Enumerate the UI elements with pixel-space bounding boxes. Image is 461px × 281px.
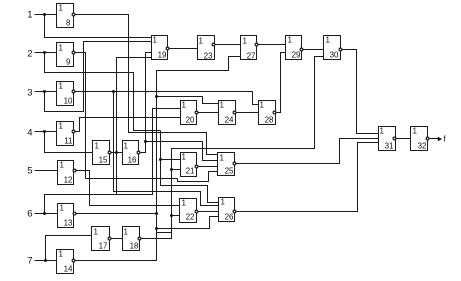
wire: gate 19 output to gate 23 input [169,48,198,50]
svg-text:1: 1 [326,36,331,45]
svg-text:1: 1 [60,204,65,213]
wire: input 1 to gate 8, branch to gate 19 pin 1 [35,13,152,38]
svg-text:11: 11 [64,137,73,146]
svg-text:24: 24 [225,116,234,125]
wire: trunk x155 branch to gate 24 pin 1 [157,97,219,104]
svg-text:19: 19 [158,51,167,60]
svg-text:7: 7 [27,256,32,267]
wire: input 2 to gate 9, branch down to trunk x160 [35,51,161,131]
wire: gate 20 output to gate 24 pin 2 [198,112,219,114]
svg-text:1: 1 [380,127,385,136]
wire: input 3 to gate 10, branch up to gate 19 pin 2 [35,42,152,112]
input terminal 7 [27,256,32,267]
svg-text:4: 4 [27,128,32,139]
wire: gate 15 output to gate 16 input, branch to gate 19 pin 4 [111,58,152,195]
gate U26 (OR-invert "1" block) [219,198,236,222]
wire: gate 27 output to gate 29 pin 1 [259,44,286,46]
gate U32 (OR-invert "1" block) [411,127,429,151]
gate U20 (OR-invert "1" block) [181,101,198,125]
wire: gate 8 output to gate 25 pin 1 [75,15,218,155]
wire: gate 29 output to gate 30 pin 1 [304,49,324,51]
svg-text:1: 1 [221,198,226,207]
svg-text:1: 1 [59,4,64,13]
svg-text:30: 30 [330,51,339,60]
svg-text:26: 26 [225,213,234,222]
gate U11 (OR-invert "1" block) [57,122,75,146]
wire: input 7 to gate 14, branch up to gate 17 input [35,236,92,263]
gate U21 (OR-invert "1" block) [181,153,198,177]
wire: gate 12 output to gate 22 pin 1 [76,171,180,206]
svg-text:27: 27 [247,52,256,61]
svg-text:1: 1 [95,142,100,151]
svg-text:10: 10 [64,97,73,106]
svg-text:25: 25 [225,167,234,176]
wire: gate 9 output to gate 25 pin 4 [75,53,218,182]
svg-text:9: 9 [66,58,71,67]
svg-text:15: 15 [99,156,108,165]
gate U8 (OR-invert "1" block) [57,4,75,28]
gate U25 (OR-invert "1" block) [218,153,236,176]
gate U13 (OR-invert "1" block) [58,204,76,228]
input terminal 1 [27,10,32,21]
input terminal 6 [27,209,32,220]
wire: gate 24 output to gate 28 pin 2 [237,112,259,114]
wire: gate 18 output riser x171 to gate 30 pin 2 [142,57,324,239]
svg-text:14: 14 [64,265,73,274]
svg-text:8: 8 [66,19,71,28]
wire: gate 26 output to gate 31 pin 3 [237,143,379,212]
wire: gate 17 output to gate 18 input [111,238,123,240]
svg-text:31: 31 [385,142,394,151]
svg-text:23: 23 [204,52,213,61]
svg-text:32: 32 [418,142,427,151]
svg-text:1: 1 [27,10,32,21]
svg-text:29: 29 [292,51,301,60]
gate U23 (OR-invert "1" block) [198,36,215,61]
svg-text:1: 1 [182,153,187,162]
svg-text:22: 22 [186,213,195,222]
wire: riser x171 branch to gate 21 pin 2 [172,169,181,171]
svg-text:28: 28 [265,116,274,125]
wire: tie trunk x155 to riser x171 [157,232,172,234]
gate U12 (OR-invert "1" block) [58,161,76,185]
svg-text:16: 16 [128,156,137,165]
svg-text:5: 5 [27,166,32,177]
wire: gate 32 output to terminal f [430,138,439,140]
wire: gate 13 output joining trunk x155 [76,212,159,215]
svg-text:1: 1 [182,199,187,208]
gate U10 (OR-invert "1" block) [57,82,75,106]
wire: gate 22 output to gate 26 pin 3 [198,211,219,213]
gate U24 (OR-invert "1" block) [219,101,236,125]
input terminal 5 [27,166,32,177]
svg-text:13: 13 [64,219,73,228]
svg-text:1: 1 [288,36,293,45]
wire: gate 31 output to gate 32 input [397,138,411,140]
wire: gate 16 output riser to gate 19 pin 3 and gate 25 pin 2 [140,53,218,161]
svg-text:1: 1 [182,101,187,110]
svg-text:20: 20 [186,116,195,125]
svg-text:1: 1 [199,37,204,46]
wire: gate 28 output to gate 29 pin 2 [277,53,286,113]
gate U19 (OR-invert "1" block) [152,36,169,60]
wire: gate 25 output to gate 31 pin 2 [237,139,379,164]
gate U30 (OR-invert "1" block) [324,36,342,60]
svg-text:1: 1 [413,127,418,136]
svg-text:1: 1 [59,250,64,259]
svg-text:1: 1 [94,228,99,237]
svg-text:1: 1 [153,36,158,45]
gate U28 (OR-invert "1" block) [259,101,276,125]
svg-text:1: 1 [60,161,65,170]
svg-text:12: 12 [64,176,73,185]
wire: input 6 to gate 13, branch up to gate 20 pin 1 [35,109,181,216]
input terminal 3 [27,88,32,99]
svg-text:1: 1 [59,122,64,131]
wire: gate 21 output to gate 25 pin 3 [198,166,218,168]
svg-text:21: 21 [186,167,195,176]
wire: gate 10 output to gate 28 pin 1, branch to gate 26 pin 2 [75,90,259,206]
gate U15 (OR-invert "1" block) [93,141,111,165]
svg-text:1: 1 [124,228,129,237]
svg-text:1: 1 [124,142,129,151]
wire: gate 14 output / trunk x155 up to gate 27 pin 2 [75,57,241,261]
input terminal 4 [27,128,32,139]
svg-text:1: 1 [59,82,64,91]
wire: gate 11 output to gate 20 pin 2 [75,118,181,132]
gate U9 (OR-invert "1" block) [57,43,75,67]
wire: input 5 to gate 12 [35,170,58,172]
gate U18 (OR-invert "1" block) [123,227,141,251]
svg-text:6: 6 [27,209,32,220]
svg-text:1: 1 [260,101,265,110]
gate U16 (OR-invert "1" block) [123,141,140,165]
gate U29 (OR-invert "1" block) [286,36,303,60]
wire: gate 30 output to gate 31 pin 1 [342,50,379,134]
svg-text:2: 2 [27,49,32,60]
input terminal 2 [27,49,32,60]
wire: input 4 to gate 11, branch to gate 15 input [35,130,93,153]
wire: trunk x155 branch to gate 26 pin 4 [157,217,219,229]
svg-text:18: 18 [130,242,139,251]
gate U31 (OR-invert "1" block) [379,127,396,151]
svg-text:1: 1 [59,44,64,53]
gate U17 (OR-invert "1" block) [92,227,111,251]
svg-text:17: 17 [99,242,108,251]
output terminal f with arrowhead [438,134,447,144]
gate U14 (OR-invert "1" block) [57,250,75,274]
gate U27 (OR-invert "1" block) [241,36,258,61]
svg-text:1: 1 [243,37,248,46]
svg-text:3: 3 [27,88,32,99]
svg-text:1: 1 [220,101,225,110]
wire: gate 23 output to gate 27 pin 1 [216,44,241,46]
gate U22 (OR-invert "1" block) [180,199,198,223]
wire: trunk x160 to gate 21 pin 1 and gate 26 pin 1 [159,131,219,203]
svg-text:1: 1 [220,154,225,163]
wire: riser x171 branch to gate 22 pin 2 [172,215,180,217]
